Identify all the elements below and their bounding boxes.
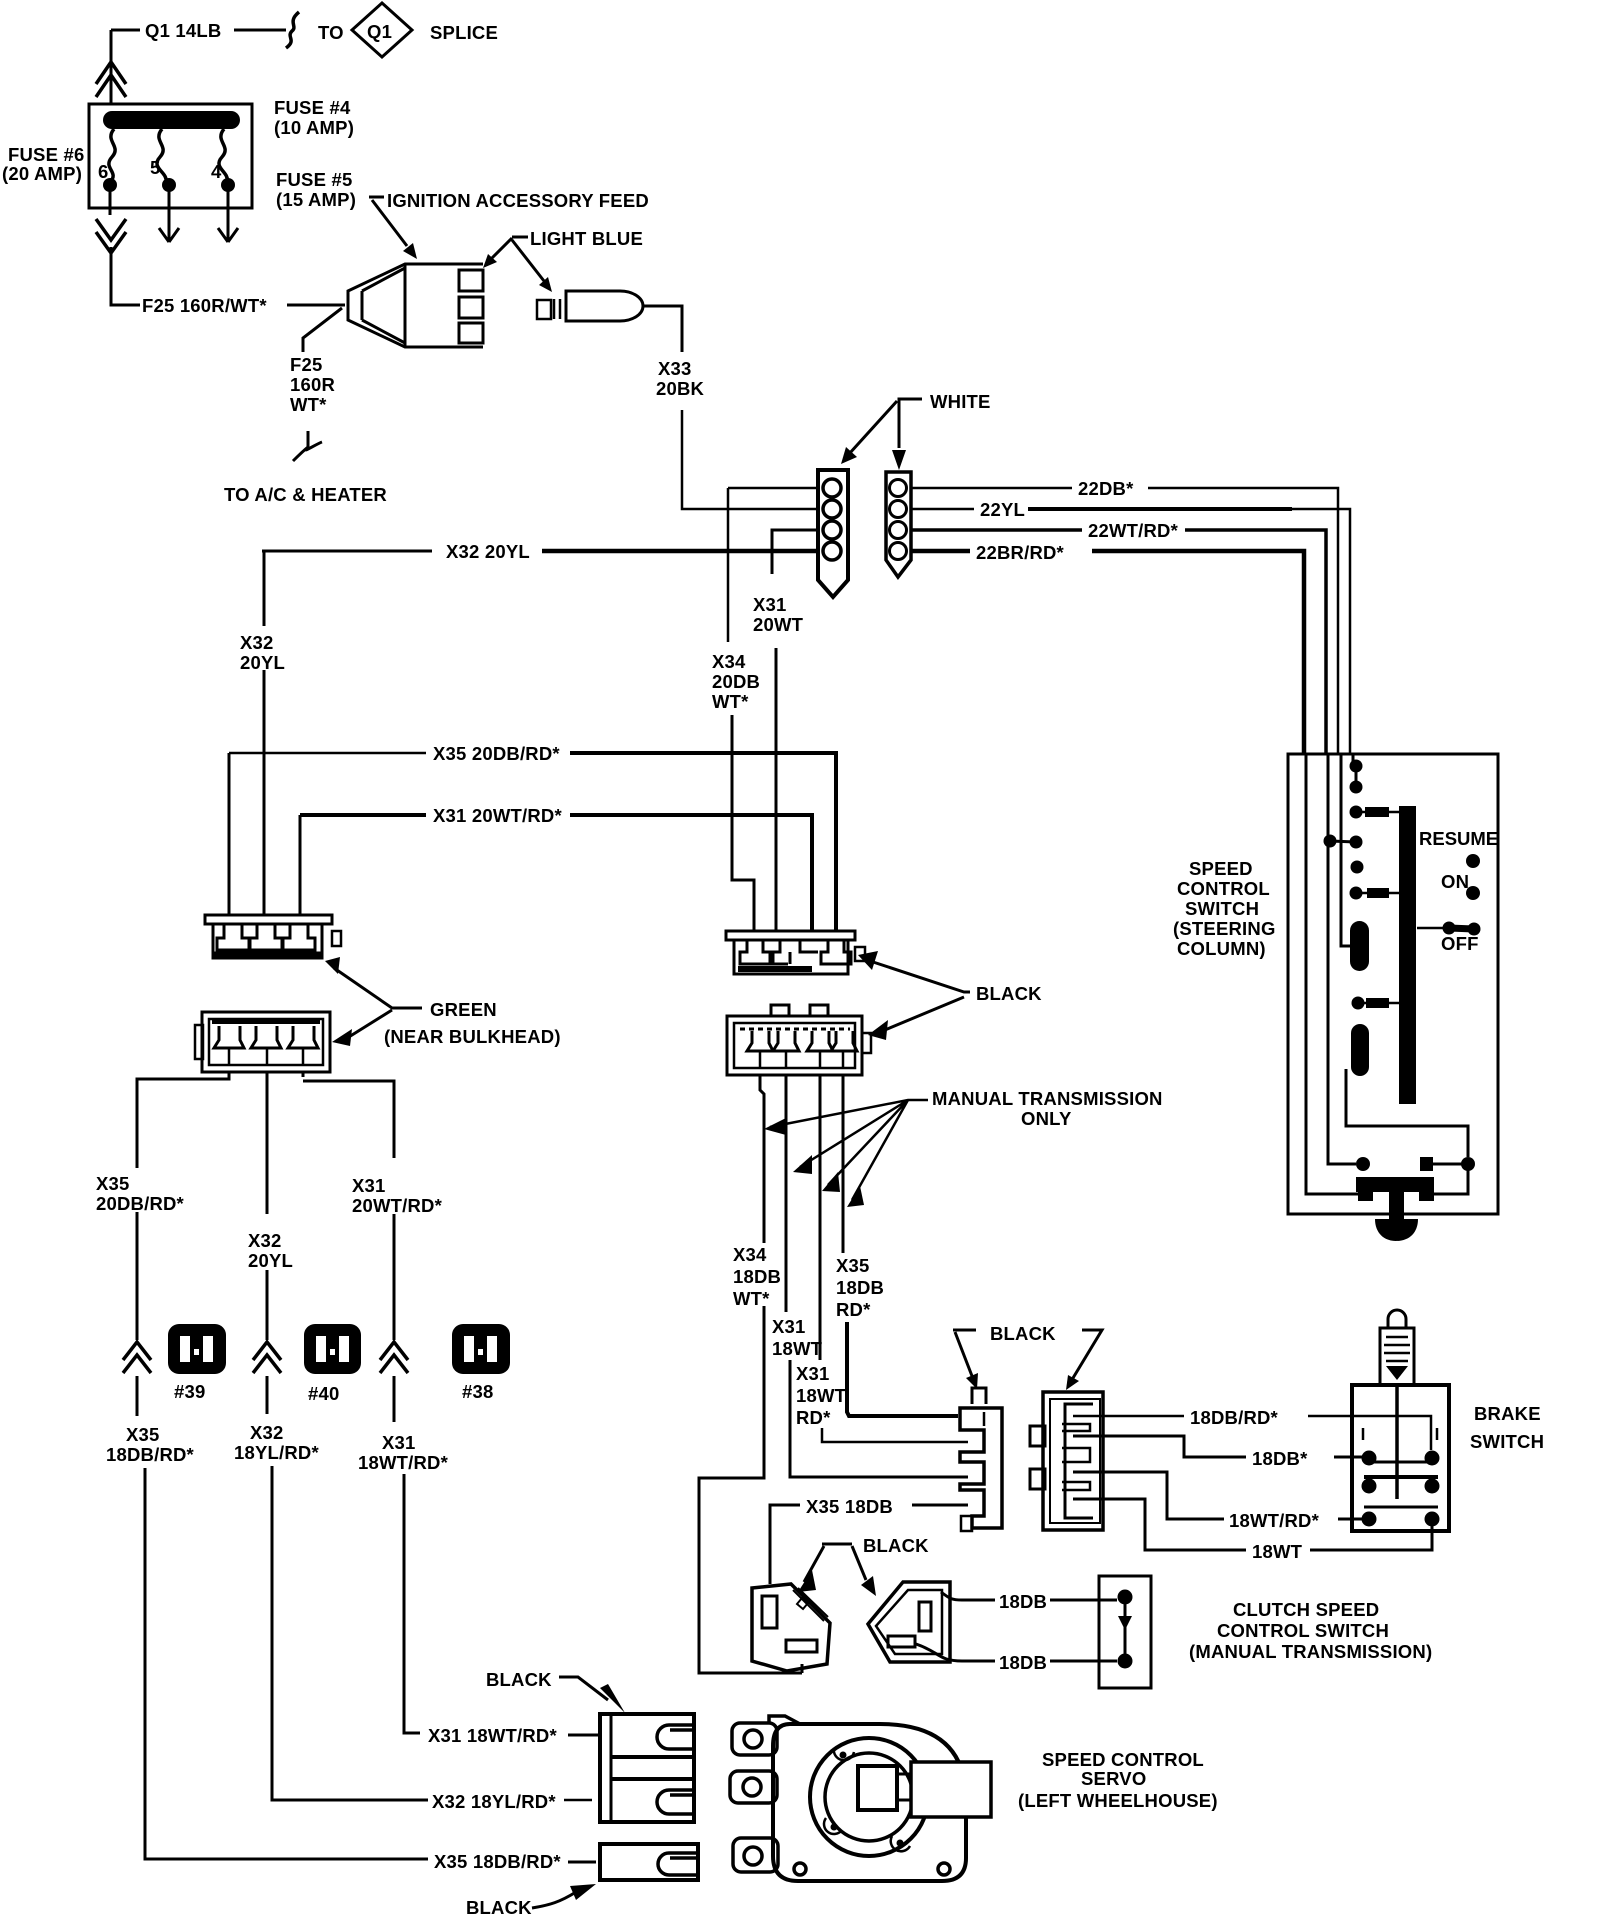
- svg-text:WT*: WT*: [733, 1288, 770, 1309]
- connector servo terminal (single): [600, 1844, 698, 1880]
- svg-text:BRAKE: BRAKE: [1474, 1403, 1541, 1424]
- wire 18DB (clutch lower): [916, 1644, 1117, 1661]
- lamp X33 (bulb): [537, 291, 643, 321]
- clutch switch contacts: [1118, 1590, 1133, 1605]
- servo actuator square: [858, 1766, 897, 1810]
- svg-text:18DB/RD*: 18DB/RD*: [106, 1444, 195, 1465]
- brake contact dots: [1362, 1451, 1377, 1466]
- wire X34 continues to black connector: [732, 715, 754, 931]
- svg-text:GREEN: GREEN: [430, 999, 497, 1020]
- svg-text:RD*: RD*: [796, 1407, 831, 1428]
- svg-text:18DB: 18DB: [836, 1277, 884, 1298]
- svg-text:BLACK: BLACK: [466, 1897, 532, 1916]
- svg-text:18WT: 18WT: [772, 1338, 823, 1359]
- lower contact dots row: [1356, 1157, 1370, 1171]
- leader arrows WHITE: [849, 399, 922, 454]
- svg-text:4: 4: [211, 161, 222, 182]
- svg-text:20DB/RD*: 20DB/RD*: [96, 1193, 185, 1214]
- connector ignition accessory feed (fuse block plug): [348, 264, 483, 347]
- svg-text:18WT/RD*: 18WT/RD*: [358, 1452, 449, 1473]
- wire lower right dot to T-bar: [1434, 1168, 1468, 1194]
- fuse terminal dot 5: [162, 178, 176, 192]
- contact tick at 893: [1360, 892, 1400, 895]
- leader arrows BLACK (cross connectors): [804, 1544, 866, 1582]
- leader arrow IGNITION ACCESSORY FEED: [369, 197, 407, 246]
- svg-text:(20 AMP): (20 AMP): [2, 163, 82, 184]
- svg-text:18WT: 18WT: [796, 1385, 847, 1406]
- svg-text:(MANUAL TRANSMISSION): (MANUAL TRANSMISSION): [1189, 1641, 1432, 1662]
- svg-text:X35 18DB/RD*: X35 18DB/RD*: [434, 1851, 561, 1872]
- brake switch housing: [1352, 1385, 1449, 1531]
- svg-text:(NEAR BULKHEAD): (NEAR BULKHEAD): [384, 1026, 561, 1047]
- svg-text:X31 20WT/RD*: X31 20WT/RD*: [433, 805, 562, 826]
- fuse #5 element: [157, 129, 166, 182]
- svg-text:X31: X31: [772, 1316, 806, 1337]
- wire 22BR/RD* inside switch: [1306, 754, 1360, 1194]
- leader arrows BLACK (bulkhead): [870, 961, 970, 1032]
- connector 4-pin half A (comb): [960, 1388, 1002, 1531]
- svg-text:F25 160R/WT*: F25 160R/WT*: [142, 295, 267, 316]
- wire 18WT/RD*: [1073, 1472, 1362, 1519]
- wire break symbol: [286, 12, 299, 48]
- svg-text:6: 6: [98, 161, 109, 182]
- wire X32 20YL horizontal: [262, 550, 818, 553]
- wire X31 branch (right): [303, 1072, 420, 1733]
- wire from Q1 14LB label to break: [234, 29, 286, 32]
- leader arrows BLACK (clutch connectors): [953, 1330, 1102, 1378]
- svg-text:Q1: Q1: [367, 21, 392, 42]
- svg-text:BLACK: BLACK: [990, 1323, 1056, 1344]
- svg-text:X31: X31: [352, 1175, 386, 1196]
- svg-text:WT*: WT*: [290, 394, 327, 415]
- splice #40: [304, 1324, 361, 1374]
- svg-text:Q1 14LB: Q1 14LB: [145, 20, 221, 41]
- connector arrows (double chevron up) on Q1 wire: [96, 62, 126, 97]
- svg-text:BLACK: BLACK: [486, 1669, 552, 1690]
- svg-text:20BK: 20BK: [656, 378, 705, 399]
- wire 18WT: [1073, 1499, 1432, 1550]
- fuse terminal dot 4: [221, 178, 235, 192]
- wire X32 branch (middle): [253, 1072, 428, 1800]
- wire Q1 14LB horizontal left stub: [111, 29, 140, 32]
- svg-text:RD*: RD*: [836, 1299, 871, 1320]
- fuse terminal dot 6: [103, 178, 117, 192]
- wire 22DB*: [911, 488, 1338, 754]
- wire 22WT/RD* inside switch: [1328, 754, 1356, 1164]
- svg-text:18DB: 18DB: [999, 1591, 1047, 1612]
- wire cross plug top stub: [801, 1664, 804, 1673]
- svg-text:22BR/RD*: 22BR/RD*: [976, 542, 1065, 563]
- OFF contact: [1417, 927, 1447, 930]
- wire bulb to X33: [644, 306, 818, 509]
- connector clutch switch plug (angled): [868, 1582, 950, 1662]
- leader arrow BLACK bottom: [532, 1892, 576, 1908]
- connector servo terminals (two-cell): [600, 1714, 694, 1822]
- svg-text:ONLY: ONLY: [1021, 1108, 1072, 1129]
- wire F25 label to connector: [287, 304, 345, 307]
- svg-text:20YL: 20YL: [248, 1250, 293, 1271]
- clutch speed control switch box: [1099, 1576, 1151, 1688]
- fuse block outline: [89, 104, 252, 208]
- wire X35 18DB to clutch connector: [770, 1505, 968, 1584]
- svg-text:X31: X31: [382, 1432, 416, 1453]
- wire to green connector pin1: [229, 551, 300, 915]
- svg-text:X35: X35: [96, 1173, 130, 1194]
- speed control switch housing: [1288, 754, 1498, 1214]
- wire fuse 4 output with arrowhead: [218, 190, 238, 242]
- connector 4-pin half B (comb): [1030, 1392, 1103, 1530]
- svg-text:COLUMN): COLUMN): [1177, 938, 1266, 959]
- wire break to A/C & heater: [293, 431, 322, 461]
- wire X34 18DB WT*: [699, 1075, 802, 1673]
- switch slider lozenge 2: [1351, 1024, 1369, 1076]
- svg-text:CONTROL: CONTROL: [1177, 878, 1270, 899]
- wire F25 corner to label: [111, 304, 140, 305]
- svg-text:X32 18YL/RD*: X32 18YL/RD*: [432, 1791, 556, 1812]
- svg-text:X34: X34: [733, 1244, 767, 1265]
- svg-text:#40: #40: [308, 1383, 339, 1404]
- wire X35 18DB RD*: [843, 1075, 958, 1416]
- svg-text:OFF: OFF: [1441, 933, 1479, 954]
- RESUME contact dot: [1466, 854, 1480, 868]
- svg-text:X32: X32: [240, 632, 274, 653]
- svg-text:X31: X31: [796, 1363, 830, 1384]
- fuse #6 element: [109, 129, 115, 182]
- wire 18DB (clutch upper): [941, 1592, 1117, 1600]
- svg-text:(STEERING: (STEERING: [1173, 918, 1276, 939]
- svg-text:WT*: WT*: [712, 691, 749, 712]
- contact tick at 1003: [1362, 1002, 1400, 1005]
- connector white half 2 (4-cavity): [886, 472, 911, 577]
- wire stub to terminal 3: [568, 1861, 596, 1864]
- brake switch guide ticks: [1362, 1428, 1365, 1440]
- svg-text:CLUTCH SPEED: CLUTCH SPEED: [1233, 1599, 1379, 1620]
- wire X31 18WT: [786, 1075, 968, 1477]
- wire fuse 5 output with arrowhead: [159, 190, 179, 242]
- svg-text:20WT: 20WT: [753, 614, 804, 635]
- svg-text:F25: F25: [290, 354, 322, 375]
- svg-text:22YL: 22YL: [980, 499, 1025, 520]
- svg-text:WHITE: WHITE: [930, 391, 991, 412]
- wire stub to terminal 1: [568, 1734, 600, 1737]
- contact tick at 812: [1360, 811, 1400, 814]
- svg-text:BLACK: BLACK: [976, 983, 1042, 1004]
- svg-text:18WT: 18WT: [1252, 1541, 1303, 1562]
- svg-text:X32 20YL: X32 20YL: [446, 541, 530, 562]
- svg-text:X32: X32: [250, 1422, 284, 1443]
- wire X31 20WT from white connector pin3: [772, 530, 818, 574]
- svg-text:X34: X34: [712, 651, 746, 672]
- svg-text:BLACK: BLACK: [863, 1535, 929, 1556]
- wire 22YL inside switch: [1352, 754, 1355, 765]
- svg-text:X33: X33: [658, 358, 692, 379]
- splice symbol Q1 diamond: [352, 3, 412, 57]
- wire X34 20DB WT* from white connector pin1: [728, 488, 818, 642]
- svg-text:(LEFT WHEELHOUSE): (LEFT WHEELHOUSE): [1018, 1790, 1218, 1811]
- svg-text:X35: X35: [836, 1255, 870, 1276]
- svg-text:SWITCH: SWITCH: [1470, 1431, 1544, 1452]
- svg-text:X35: X35: [126, 1424, 160, 1445]
- connector green half 2 (harness side): [195, 1012, 330, 1072]
- svg-text:ON: ON: [1441, 871, 1469, 892]
- wire X31 20WT/RD* horizontal: [300, 815, 812, 931]
- splice #38: [452, 1324, 510, 1374]
- svg-text:5: 5: [150, 157, 161, 178]
- svg-text:#38: #38: [462, 1381, 493, 1402]
- connector black half 2 (harness side): [727, 1005, 871, 1075]
- svg-text:SWITCH: SWITCH: [1185, 898, 1259, 919]
- svg-text:X31: X31: [753, 594, 787, 615]
- connector white half 1 (4-cavity): [818, 470, 848, 597]
- svg-text:18YL/RD*: 18YL/RD*: [234, 1442, 319, 1463]
- wire 22WT/RD*: [911, 530, 1326, 754]
- svg-text:#39: #39: [174, 1381, 205, 1402]
- wire 18DB/RD*: [1073, 1416, 1431, 1450]
- svg-text:LIGHT BLUE: LIGHT BLUE: [530, 228, 643, 249]
- svg-text:X32: X32: [248, 1230, 282, 1251]
- wire Q1 14LB vertical to fuse block: [110, 30, 113, 104]
- svg-text:20DB: 20DB: [712, 671, 760, 692]
- splice #39: [168, 1324, 226, 1374]
- svg-text:18DB: 18DB: [999, 1652, 1047, 1673]
- svg-text:CONTROL SWITCH: CONTROL SWITCH: [1217, 1620, 1389, 1641]
- leader arrows LIGHT BLUE: [492, 237, 544, 281]
- connector clutch jumper plug (cross): [752, 1584, 830, 1671]
- svg-text:FUSE #6: FUSE #6: [8, 144, 84, 165]
- svg-text:(10 AMP): (10 AMP): [274, 117, 354, 138]
- wire fuse 6 output down: [110, 190, 111, 304]
- speed control servo body: [730, 1716, 966, 1881]
- wire X35 branch (left): [123, 1072, 428, 1859]
- svg-text:SPEED CONTROL: SPEED CONTROL: [1042, 1749, 1204, 1770]
- switch common bar: [1399, 806, 1416, 1104]
- svg-text:22WT/RD*: 22WT/RD*: [1088, 520, 1179, 541]
- connector arrows (double chevron down) below fuse 6: [96, 219, 126, 253]
- switch contact dots column: [1350, 760, 1363, 773]
- wire X31 18WT RD*: [820, 1075, 968, 1442]
- brake switch plunger: [1380, 1310, 1414, 1385]
- servo right block: [911, 1762, 991, 1817]
- svg-text:22DB*: 22DB*: [1078, 478, 1134, 499]
- svg-text:(15 AMP): (15 AMP): [276, 189, 356, 210]
- svg-text:SPEED: SPEED: [1189, 858, 1253, 879]
- svg-text:TO: TO: [318, 22, 344, 43]
- wire lozenge2 to lower right contact: [1346, 1069, 1468, 1157]
- fuse #4 element: [219, 129, 227, 182]
- wire X31 20WT continues to black connector: [775, 648, 778, 931]
- leader arrow BLACK to terminal: [559, 1677, 608, 1700]
- leader arrows GREEN: [334, 968, 422, 1040]
- svg-text:IGNITION ACCESSORY FEED: IGNITION ACCESSORY FEED: [387, 190, 649, 211]
- svg-text:FUSE #5: FUSE #5: [276, 169, 352, 190]
- ON contact dot: [1466, 886, 1480, 900]
- svg-text:X35 18DB: X35 18DB: [806, 1496, 893, 1517]
- servo screw bosses: [824, 1748, 910, 1851]
- wire X33 20BK below label: [682, 410, 818, 509]
- diagonal leader to F25 160R WT* label: [303, 308, 342, 352]
- svg-text:X31 18WT/RD*: X31 18WT/RD*: [428, 1725, 557, 1746]
- svg-text:MANUAL TRANSMISSION: MANUAL TRANSMISSION: [932, 1088, 1163, 1109]
- svg-text:18DB: 18DB: [733, 1266, 781, 1287]
- wire 22YL: [911, 509, 1350, 754]
- svg-text:FUSE #4: FUSE #4: [274, 97, 351, 118]
- fuse block bus bar: [103, 111, 240, 129]
- switch slider lozenge 1: [1350, 921, 1369, 971]
- wire 18DB*: [1073, 1436, 1362, 1457]
- svg-text:160R: 160R: [290, 374, 335, 395]
- leader arrows MANUAL TRANSMISSION ONLY: [770, 1100, 928, 1200]
- svg-text:20YL: 20YL: [240, 652, 285, 673]
- wire stub to terminal 2: [564, 1799, 592, 1802]
- switch T pedestal: [1356, 1177, 1434, 1192]
- connector black half 1 (to speed control switch wires): [726, 931, 865, 974]
- svg-text:X35 20DB/RD*: X35 20DB/RD*: [433, 743, 560, 764]
- svg-text:SERVO: SERVO: [1081, 1768, 1146, 1789]
- svg-text:TO A/C & HEATER: TO A/C & HEATER: [224, 484, 387, 505]
- wire 22DB* inside switch: [1341, 754, 1352, 946]
- svg-text:18WT/RD*: 18WT/RD*: [1229, 1510, 1320, 1531]
- connector green half 1 (engine side): [205, 915, 341, 958]
- svg-text:18DB/RD*: 18DB/RD*: [1190, 1407, 1279, 1428]
- brake switch shaft: [1395, 1385, 1399, 1499]
- svg-text:20WT/RD*: 20WT/RD*: [352, 1195, 443, 1216]
- svg-text:RESUME: RESUME: [1419, 828, 1498, 849]
- wire to green connector pin3: [299, 815, 302, 915]
- svg-text:18DB*: 18DB*: [1252, 1448, 1308, 1469]
- wire 22BR/RD*: [911, 551, 1304, 754]
- wire X35 20DB/RD* horizontal: [229, 753, 836, 931]
- wire X32 20YL vertical: [263, 551, 266, 915]
- svg-text:SPLICE: SPLICE: [430, 22, 498, 43]
